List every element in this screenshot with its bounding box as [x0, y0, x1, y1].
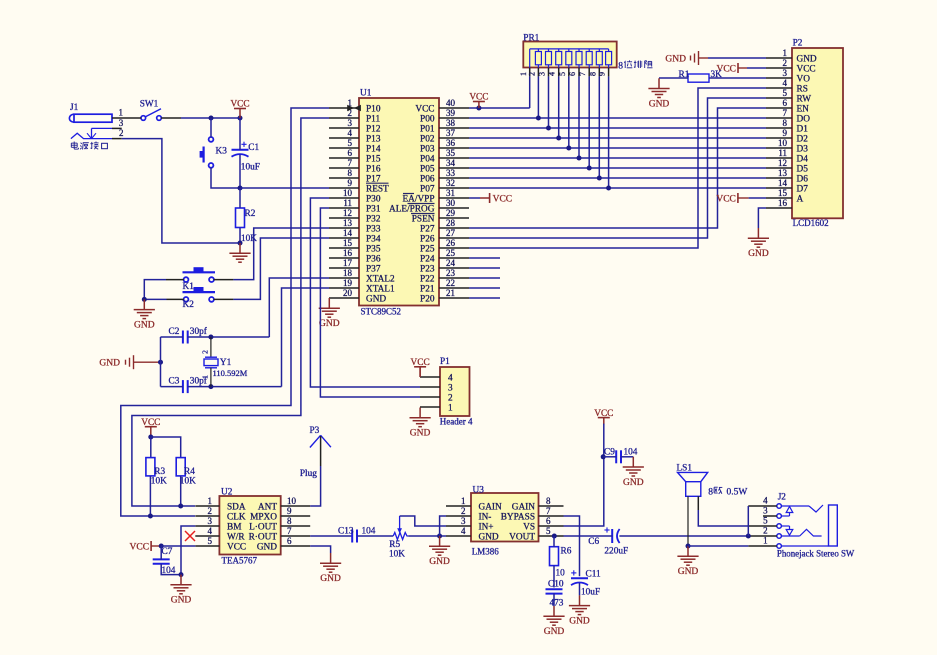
svg-text:30pf: 30pf	[190, 326, 208, 337]
pin P2.7 DO	[766, 108, 810, 124]
op-amp U2 TEA5767 body	[219, 487, 280, 565]
svg-text:TEA5767: TEA5767	[222, 556, 258, 566]
label 8ohm 0.5W	[708, 487, 747, 497]
wire P2.2	[747, 67, 766, 69]
svg-text:GND: GND	[410, 429, 431, 439]
svg-text:VCC: VCC	[493, 194, 513, 204]
pin U1.4 P13	[329, 128, 381, 144]
wire PR1 pin2 to P00	[537, 76, 539, 118]
svg-text:34: 34	[446, 158, 456, 168]
wire VCC row pin40	[469, 107, 530, 109]
resistor PR1 element 7	[596, 49, 602, 68]
pin U1.17 P37	[329, 258, 381, 274]
svg-text:11: 11	[778, 148, 787, 158]
pin P2.5 RW	[766, 88, 811, 104]
svg-text:L·OUT: L·OUT	[249, 522, 277, 532]
svg-text:J2: J2	[778, 493, 787, 503]
wire stub P20	[469, 297, 500, 299]
node R4-SDA junction	[178, 504, 183, 509]
svg-text:C11: C11	[586, 570, 602, 580]
svg-text:VCC: VCC	[415, 104, 434, 114]
svg-text:9: 9	[783, 128, 788, 138]
pin U1.32 P07	[420, 178, 469, 194]
svg-text:W/R: W/R	[227, 532, 245, 542]
pin U2.8 L·OUT	[249, 516, 310, 532]
svg-text:GAIN: GAIN	[512, 502, 536, 512]
svg-text:P06: P06	[420, 174, 435, 184]
svg-text:GND: GND	[257, 542, 277, 552]
wire P2.1	[708, 57, 766, 59]
svg-text:VS: VS	[523, 522, 535, 532]
svg-text:37: 37	[446, 128, 456, 138]
svg-text:9: 9	[287, 506, 292, 516]
svg-text:BYPASS: BYPASS	[501, 512, 535, 522]
resistor R3 10K	[146, 458, 167, 487]
ground C11	[579, 595, 581, 605]
pin P2.10 D3	[766, 138, 808, 154]
resistor PR1 element 3	[556, 49, 562, 68]
svg-text:P21: P21	[420, 284, 435, 294]
resistor PR1 element 8	[606, 49, 612, 68]
node crystal bottom junction	[208, 384, 213, 389]
op-amp U1 STC89C52 body	[359, 89, 439, 317]
label 8-bit resistor network	[618, 60, 652, 71]
svg-text:GND: GND	[665, 55, 686, 65]
node PR1 pin9 junction	[606, 186, 611, 191]
svg-text:A: A	[797, 194, 804, 204]
svg-text:10: 10	[556, 569, 566, 579]
wire R5 wiper to IN+	[400, 516, 446, 526]
svg-text:P26: P26	[420, 234, 435, 244]
pin P2.14 D7	[766, 178, 808, 194]
svg-text:Phonejack Stereo SW: Phonejack Stereo SW	[777, 549, 855, 559]
svg-text:U1: U1	[360, 89, 372, 99]
pin U1.29 PSEN	[411, 208, 469, 224]
node PR1 pin3 junction	[546, 126, 551, 131]
pin P1.1	[420, 403, 453, 413]
wire P31 to P1.2	[320, 208, 420, 397]
pin U3.2 IN-	[446, 506, 491, 522]
wire K1 to P33	[214, 279, 234, 281]
svg-text:8: 8	[783, 118, 788, 128]
svg-text:GND: GND	[429, 557, 450, 567]
svg-text:4: 4	[208, 526, 213, 536]
wire main to J2 pin2	[746, 534, 751, 539]
svg-text:30: 30	[446, 198, 456, 208]
svg-text:P27: P27	[420, 224, 435, 234]
power VCC bar (P2 pin15)	[737, 193, 739, 203]
svg-text:RW: RW	[797, 94, 812, 104]
pin U1.15 P35	[329, 238, 381, 254]
wire gnd stub to crystal node	[134, 361, 161, 363]
wire stub P24	[469, 257, 500, 259]
pin PR1.7	[578, 68, 589, 77]
svg-text:PSEN: PSEN	[412, 214, 435, 224]
pin P1.4	[420, 373, 453, 383]
svg-text:GND: GND	[134, 320, 155, 330]
capacitor C7 104	[153, 547, 176, 576]
svg-text:17: 17	[343, 258, 353, 268]
svg-text:XTAL2: XTAL2	[366, 274, 395, 284]
pin U1.36 P03	[420, 138, 469, 154]
capacitor C13 104	[338, 526, 376, 542]
node PR1 pin8 junction	[597, 176, 602, 181]
node PR1 pin2 junction	[536, 116, 541, 121]
svg-text:14: 14	[343, 228, 353, 238]
svg-text:GND: GND	[320, 574, 341, 584]
node PR1 pin5 junction	[566, 146, 571, 151]
wire PR1 pin9 to P07	[608, 76, 610, 188]
svg-text:GAIN: GAIN	[479, 502, 503, 512]
pin P2.13 D6	[766, 168, 808, 184]
svg-text:10: 10	[343, 188, 353, 198]
resistor PR1 element 6	[586, 49, 592, 68]
wire VCC to C1	[239, 118, 241, 150]
svg-text:36: 36	[446, 138, 456, 148]
node audio ground junction	[437, 534, 442, 539]
wire R-OUT to C13	[310, 535, 352, 537]
svg-text:GND: GND	[748, 249, 769, 259]
svg-text:7: 7	[546, 506, 551, 516]
ground P2 pin16	[757, 228, 759, 238]
ground C9	[632, 457, 634, 467]
svg-text:5: 5	[546, 526, 551, 536]
wire PR1 pin5 to P03	[568, 76, 570, 148]
svg-text:RS: RS	[797, 84, 808, 94]
ground U2 pin6	[330, 553, 332, 563]
pin U1.39 P00	[420, 108, 469, 124]
pin J1.1	[112, 117, 132, 119]
wire gnd stub P2.1	[699, 57, 709, 59]
svg-text:GND: GND	[623, 478, 644, 488]
wire VOUT to R6	[553, 536, 555, 547]
pin U1.25 P24	[420, 248, 469, 264]
wire P2.16 to gnd	[758, 208, 766, 228]
ground P2 pin1 (sideways)	[690, 56, 692, 61]
svg-text:P13: P13	[366, 134, 381, 144]
svg-text:40: 40	[446, 98, 456, 108]
svg-text:P25: P25	[420, 244, 435, 254]
power VCC bar (P2 pin2)	[737, 63, 739, 73]
svg-text:10uF: 10uF	[241, 163, 260, 173]
svg-text:P20: P20	[420, 294, 435, 304]
svg-text:4: 4	[763, 496, 768, 506]
svg-text:14: 14	[778, 178, 788, 188]
connector P1 Header 4 body	[440, 357, 473, 427]
svg-text:11: 11	[343, 198, 352, 208]
svg-text:EN: EN	[797, 104, 810, 114]
svg-text:VOUT: VOUT	[509, 532, 535, 542]
svg-text:13: 13	[778, 168, 788, 178]
svg-text:220uF: 220uF	[604, 547, 628, 557]
svg-text:5: 5	[208, 536, 213, 546]
svg-text:P05: P05	[420, 164, 435, 174]
pin U1.38 P01	[420, 118, 469, 134]
ground U1 pin20	[328, 298, 330, 308]
svg-text:D6: D6	[797, 174, 809, 184]
svg-text:6: 6	[287, 536, 292, 546]
wire XTAL1 riser	[282, 288, 330, 387]
svg-text:REST: REST	[366, 184, 389, 194]
pin PR1.3	[538, 68, 549, 77]
svg-text:15: 15	[778, 188, 788, 198]
antenna P3 Plug	[300, 426, 331, 479]
svg-text:SDA: SDA	[227, 502, 246, 512]
svg-text:R2: R2	[245, 209, 256, 219]
pin U2.6 GND	[257, 536, 310, 552]
pin U1.16 P36	[329, 248, 381, 264]
svg-text:GND: GND	[319, 319, 340, 329]
node PR1 pin4 junction	[556, 136, 561, 141]
wire C13 to R5	[357, 535, 393, 537]
pin PR1.2	[527, 68, 538, 77]
svg-text:19: 19	[343, 278, 353, 288]
svg-text:P33: P33	[366, 224, 381, 234]
svg-text:P31: P31	[366, 204, 381, 214]
wire crystal left column	[160, 337, 162, 387]
pin U3.4 GND	[446, 526, 499, 542]
svg-text:8: 8	[708, 487, 713, 497]
wire VCC stub U2.5	[151, 545, 161, 547]
wire VCC down to VS	[564, 424, 604, 526]
node PR1 pin7 junction	[587, 166, 592, 171]
wire C6 to jack	[619, 535, 748, 537]
pin U1.35 P04	[420, 148, 469, 164]
svg-text:31: 31	[446, 188, 455, 198]
svg-text:LCD1602: LCD1602	[793, 218, 829, 228]
svg-text:4: 4	[348, 128, 353, 138]
wire P02 data line	[469, 137, 766, 139]
pin U1.6 P15	[329, 148, 381, 164]
pin U2.4 W/R	[195, 526, 245, 542]
svg-text:P36: P36	[366, 254, 381, 264]
wire PR1 pin3 to P01	[548, 76, 550, 128]
svg-text:P23: P23	[420, 264, 435, 274]
power VCC bar (EA/VPP)	[469, 197, 480, 199]
wire VOUT to C6	[564, 535, 613, 537]
svg-text:R·OUT: R·OUT	[249, 532, 278, 542]
pin U3.8 GAIN	[512, 496, 564, 512]
svg-text:1: 1	[201, 375, 210, 379]
svg-text:C7: C7	[162, 547, 173, 557]
pin U1.30 ALE/PROG	[389, 198, 469, 214]
svg-text:33: 33	[446, 168, 456, 178]
wire U2 GND pin to ground	[310, 546, 330, 553]
pin P2.16	[766, 198, 792, 208]
svg-text:3: 3	[538, 72, 547, 76]
wire P01 data line	[469, 127, 766, 129]
pin P2.4 RS	[766, 78, 808, 94]
capacitor C2 30pf	[169, 326, 208, 344]
svg-text:24: 24	[446, 258, 456, 268]
capacitor C1 10uF	[232, 142, 260, 173]
svg-text:8: 8	[287, 516, 292, 526]
svg-text:4: 4	[448, 373, 453, 383]
capacitor C9 104	[604, 447, 638, 463]
svg-text:15: 15	[343, 238, 353, 248]
svg-text:12: 12	[343, 208, 352, 218]
svg-text:IN+: IN+	[479, 522, 494, 532]
pin P2.12 D5	[766, 158, 808, 174]
pin U2.9 MPXO	[250, 506, 310, 522]
pin P2.6 EN	[766, 98, 809, 114]
svg-text:P15: P15	[366, 154, 381, 164]
capacitor C6 220uF	[588, 527, 628, 556]
pin U1.18 XTAL2	[329, 268, 395, 284]
svg-text:20: 20	[343, 288, 353, 298]
svg-text:32: 32	[446, 178, 455, 188]
svg-text:5: 5	[783, 88, 788, 98]
pin U2.1 SDA	[195, 496, 246, 512]
wire R2 bottom lead	[239, 228, 241, 244]
svg-text:P14: P14	[366, 144, 381, 154]
svg-text:C13: C13	[338, 526, 354, 536]
svg-text:D2: D2	[797, 134, 809, 144]
wire K3 bottom to node	[211, 168, 240, 189]
svg-text:473: 473	[550, 599, 564, 609]
svg-text:STC89C52: STC89C52	[361, 307, 402, 317]
node C7 junction	[159, 544, 164, 549]
node R3-CLK junction	[148, 514, 153, 519]
svg-text:2: 2	[527, 72, 536, 76]
resistor PR1 element 5	[576, 49, 582, 68]
svg-text:104: 104	[624, 447, 638, 457]
pin U1.13 P33	[329, 218, 381, 234]
pin U1.5 P14	[329, 138, 381, 154]
pin U1.33 P06	[420, 168, 469, 184]
pin U1.8 P17	[329, 168, 381, 184]
svg-text:6: 6	[568, 72, 577, 76]
wire C9 right to gnd	[621, 456, 634, 458]
pin J1.3	[112, 127, 122, 129]
svg-text:P24: P24	[420, 254, 435, 264]
svg-text:P10: P10	[366, 104, 381, 114]
op-amp U3 LM386 body	[471, 485, 539, 556]
wire K1-K2 left column	[144, 280, 166, 300]
wire C2 right to XTAL2	[188, 336, 270, 338]
svg-text:P37: P37	[366, 264, 381, 274]
resistor R2 10K	[236, 208, 258, 244]
wire P04 data line	[469, 157, 766, 159]
svg-text:2: 2	[783, 58, 788, 68]
power VCC bar (U2 pin5)	[150, 541, 152, 551]
wire stub P21	[469, 287, 500, 289]
svg-text:3: 3	[119, 118, 124, 128]
svg-text:26: 26	[446, 238, 456, 248]
wire C11 bottom	[579, 583, 581, 595]
pin P2.8 D1	[766, 118, 808, 134]
wire PR1 pin7 to P05	[588, 76, 590, 168]
wire J1 pin2 to R2 bottom	[122, 139, 240, 243]
svg-text:GND: GND	[797, 54, 817, 64]
svg-text:K2: K2	[183, 300, 195, 310]
svg-text:8: 8	[348, 168, 353, 178]
svg-text:P16: P16	[366, 164, 381, 174]
svg-text:K3: K3	[216, 147, 228, 157]
svg-text:3: 3	[783, 68, 788, 78]
svg-text:7: 7	[578, 72, 587, 76]
wire C9 left	[603, 456, 616, 458]
pushbutton K1	[183, 267, 216, 292]
resistor PR1 element 1	[535, 49, 541, 68]
svg-text:2: 2	[763, 526, 768, 536]
pin U1.14 P34	[329, 228, 381, 244]
wire J2 pin4 riser	[747, 506, 749, 536]
svg-text:5: 5	[763, 516, 768, 526]
svg-text:C3: C3	[169, 377, 180, 387]
svg-text:7: 7	[287, 526, 292, 536]
pin P2.3 VO	[766, 68, 810, 84]
ground R1	[658, 78, 660, 88]
node crystal left junction	[158, 360, 163, 365]
svg-text:1: 1	[448, 403, 453, 413]
svg-text:5: 5	[558, 72, 567, 76]
wire R1 left to gnd	[659, 77, 688, 79]
wire BYPASS to C11	[564, 516, 580, 576]
svg-text:1: 1	[208, 496, 213, 506]
svg-text:16: 16	[343, 248, 353, 258]
wire C7 bottom to gnd node	[161, 564, 181, 575]
wire SW1 to VCC node	[181, 117, 240, 119]
svg-text:1: 1	[118, 108, 123, 118]
svg-text:10uF: 10uF	[581, 588, 600, 598]
svg-text:P35: P35	[366, 244, 381, 254]
node C9 junction	[601, 454, 606, 459]
wire J2 pin1 to gnd node	[688, 545, 748, 547]
svg-text:Y1: Y1	[220, 358, 232, 368]
svg-text:D4: D4	[797, 154, 809, 164]
wire P2.2 VCC stub	[738, 67, 747, 69]
wire P30 to P1.3	[310, 198, 420, 387]
pin PR1.6	[568, 68, 579, 77]
pin U1.7 P16	[329, 158, 381, 174]
svg-text:P02: P02	[420, 134, 435, 144]
pin U1.27 P26	[420, 228, 469, 244]
svg-text:GND: GND	[678, 567, 699, 577]
pin P2.9 D2	[766, 128, 808, 144]
wire LS1 left terminal	[687, 496, 689, 546]
wire R1 right to VO	[709, 77, 766, 79]
svg-text:R6: R6	[561, 547, 572, 557]
node R2 bottom junction	[238, 241, 243, 246]
pin U2.2 CLK	[195, 506, 246, 522]
pin U1.19 XTAL1	[329, 278, 395, 294]
pin U1.21 P20	[420, 288, 469, 304]
wire C1 to node	[239, 155, 241, 189]
svg-text:39: 39	[446, 108, 456, 118]
svg-text:P22: P22	[420, 274, 435, 284]
svg-text:1: 1	[461, 496, 466, 506]
svg-text:VCC: VCC	[130, 542, 150, 552]
pin U1.9 REST	[329, 178, 389, 194]
svg-text:8: 8	[546, 496, 551, 506]
svg-text:10K: 10K	[241, 234, 257, 244]
svg-text:9: 9	[598, 72, 607, 76]
svg-text:C10: C10	[548, 579, 564, 589]
wire stub P22	[469, 277, 500, 279]
pin J1.2	[112, 138, 122, 140]
wire VCC to P1.4	[419, 367, 421, 377]
pin P2.15 A	[766, 188, 804, 204]
node VCC-C1 junction	[238, 116, 243, 121]
wire P26 to RW	[469, 98, 766, 238]
node K1K2 ground junction	[142, 297, 147, 302]
svg-text:3: 3	[448, 383, 453, 393]
svg-text:6: 6	[348, 148, 353, 158]
pin U2.5 VCC	[195, 536, 246, 552]
svg-text:13: 13	[343, 218, 353, 228]
wire P03 data line	[469, 147, 766, 149]
